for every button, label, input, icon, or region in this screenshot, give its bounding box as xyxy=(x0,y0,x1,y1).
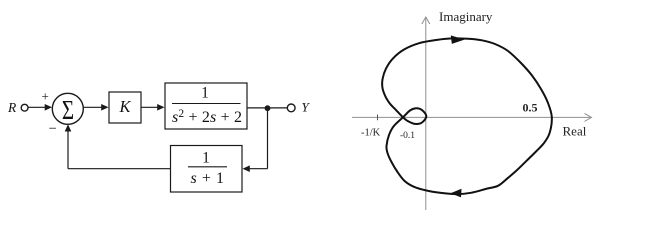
svg-text:K: K xyxy=(118,97,131,116)
svg-text:+: + xyxy=(42,89,49,104)
wire H to left xyxy=(68,168,171,170)
wire node down xyxy=(267,108,269,169)
curve arrow bottom (leftward) xyxy=(451,189,462,198)
node junction dot xyxy=(265,105,271,111)
svg-text:-0.1: -0.1 xyxy=(400,131,415,141)
svg-text:Imaginary: Imaginary xyxy=(439,9,493,24)
svg-text:−: − xyxy=(49,121,57,137)
real axis xyxy=(352,113,592,121)
wire up to summer xyxy=(65,124,72,169)
nyquist curve (figure-eight) xyxy=(382,38,552,194)
svg-text:Real: Real xyxy=(563,124,587,139)
wire into H block xyxy=(243,165,268,172)
output terminal circle xyxy=(287,104,295,112)
wire R to summer xyxy=(28,104,52,111)
wire summer to K xyxy=(83,104,108,111)
svg-text:R: R xyxy=(7,100,17,115)
svg-text:s + 1: s + 1 xyxy=(191,170,225,187)
block G 1/(s^2+2s+2) xyxy=(165,83,247,129)
svg-text:Σ: Σ xyxy=(62,96,74,126)
svg-text:-1/K: -1/K xyxy=(361,128,381,139)
svg-text:0.5: 0.5 xyxy=(523,101,538,115)
curve arrow top (rightward) xyxy=(451,35,465,44)
block H 1/(s+1) xyxy=(171,146,243,193)
wire G to Y xyxy=(247,107,287,109)
svg-text:1: 1 xyxy=(201,85,209,102)
input terminal circle xyxy=(21,104,28,111)
svg-text:1: 1 xyxy=(202,150,210,167)
imaginary axis xyxy=(422,17,430,210)
block K xyxy=(109,92,141,123)
wire K to G xyxy=(141,104,165,111)
summing junction xyxy=(52,93,83,125)
tick -1/K xyxy=(377,115,379,121)
